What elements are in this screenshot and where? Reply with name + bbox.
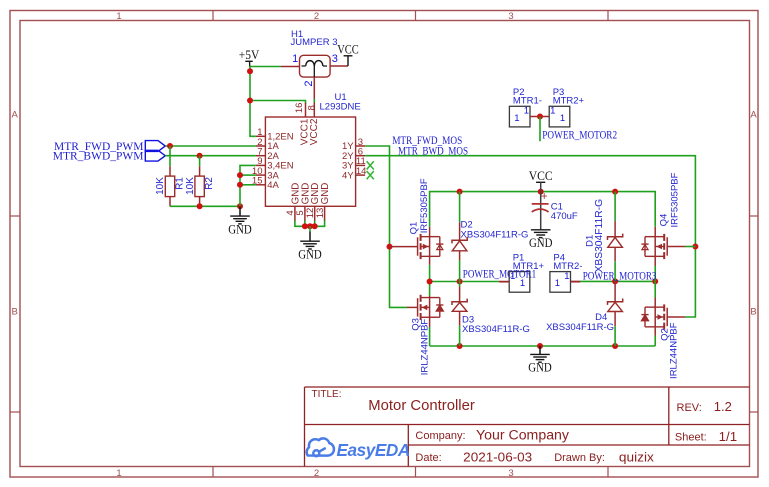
svg-text:+: +: [541, 191, 548, 203]
svg-text:IRF5305PBF: IRF5305PBF: [419, 178, 430, 233]
svg-text:Date:: Date:: [415, 452, 441, 464]
svg-text:POWER_MOTOR2: POWER_MOTOR2: [542, 130, 617, 142]
svg-text:10K: 10K: [185, 177, 196, 195]
svg-text:REV:: REV:: [677, 402, 702, 414]
svg-text:XBS304F11R-G: XBS304F11R-G: [546, 322, 614, 333]
svg-text:IRLZ44NPBF: IRLZ44NPBF: [669, 322, 680, 379]
svg-text:VCC: VCC: [337, 42, 359, 57]
svg-text:1: 1: [292, 53, 298, 65]
svg-text:2: 2: [314, 468, 319, 479]
svg-text:Sheet:: Sheet:: [675, 432, 707, 444]
svg-text:XBS304F11R-G: XBS304F11R-G: [462, 324, 530, 335]
svg-text:2: 2: [303, 80, 315, 86]
svg-text:GND: GND: [228, 221, 252, 236]
svg-text:GND: GND: [298, 247, 322, 262]
svg-text:1: 1: [116, 468, 121, 479]
svg-text:16: 16: [294, 103, 305, 114]
svg-text:R2: R2: [204, 177, 215, 190]
svg-text:L293DNE: L293DNE: [320, 102, 361, 113]
svg-text:Q1: Q1: [408, 222, 419, 235]
svg-text:2021-06-03: 2021-06-03: [463, 449, 532, 464]
svg-text:Company:: Company:: [415, 430, 465, 442]
svg-text:3: 3: [508, 468, 513, 479]
svg-text:1.2: 1.2: [714, 399, 732, 414]
svg-text:XBS304F11R-G: XBS304F11R-G: [461, 229, 529, 240]
svg-text:1: 1: [116, 11, 121, 22]
svg-text:2: 2: [314, 11, 319, 22]
svg-text:GND: GND: [529, 235, 553, 250]
svg-text:14: 14: [356, 166, 367, 177]
svg-text:470uF: 470uF: [551, 211, 578, 222]
svg-text:VCC2: VCC2: [309, 118, 320, 145]
svg-text:POWER_MOTOR3: POWER_MOTOR3: [583, 271, 657, 283]
svg-text:IRF5305PBF: IRF5305PBF: [669, 172, 680, 227]
svg-text:8: 8: [307, 105, 318, 110]
svg-text:quizix: quizix: [619, 449, 655, 464]
svg-text:Your Company: Your Company: [476, 427, 569, 442]
svg-text:1: 1: [550, 106, 555, 117]
svg-text:A: A: [750, 109, 757, 120]
svg-text:GND: GND: [320, 183, 331, 205]
svg-text:1: 1: [524, 106, 529, 117]
svg-text:1: 1: [555, 278, 560, 289]
svg-text:1: 1: [560, 113, 565, 124]
svg-text:MTR_BWD_PWM: MTR_BWD_PWM: [53, 151, 144, 163]
svg-text:R1: R1: [174, 177, 185, 190]
svg-text:4Y: 4Y: [342, 170, 354, 181]
svg-text:GND: GND: [528, 360, 552, 375]
svg-text:EasyEDA: EasyEDA: [337, 440, 410, 460]
svg-text:Drawn By:: Drawn By:: [554, 452, 605, 464]
svg-text:VCC: VCC: [529, 168, 553, 183]
svg-text:JUMPER 3: JUMPER 3: [291, 37, 338, 48]
svg-text:TITLE:: TITLE:: [312, 389, 342, 400]
svg-text:10K: 10K: [155, 177, 166, 195]
svg-text:+5V: +5V: [239, 47, 260, 62]
svg-text:1/1: 1/1: [719, 429, 738, 444]
svg-text:B: B: [750, 306, 756, 317]
svg-text:1: 1: [564, 271, 569, 282]
svg-text:A: A: [12, 109, 19, 120]
svg-text:B: B: [12, 306, 18, 317]
svg-text:POWER_MOTOR1: POWER_MOTOR1: [463, 269, 536, 281]
svg-text:Motor Controller: Motor Controller: [368, 397, 475, 414]
svg-text:13: 13: [315, 208, 326, 219]
svg-text:IRLZ44NPBF: IRLZ44NPBF: [419, 319, 430, 376]
svg-text:3: 3: [508, 11, 513, 22]
svg-text:XBS304F11R-G: XBS304F11R-G: [594, 199, 605, 273]
svg-text:1: 1: [514, 113, 519, 124]
svg-text:MTR2+: MTR2+: [553, 96, 585, 107]
svg-text:4A: 4A: [267, 180, 279, 191]
svg-text:Q4: Q4: [658, 214, 669, 227]
